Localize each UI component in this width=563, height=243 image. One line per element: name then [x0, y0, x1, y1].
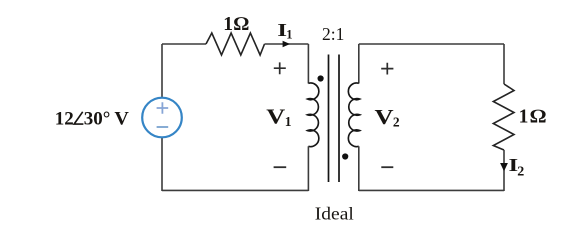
label V2	[375, 106, 394, 129]
voltage source VS circle	[142, 98, 182, 138]
label plus V1	[274, 62, 286, 74]
svg-text:2: 2	[393, 114, 400, 129]
wire left top lead	[161, 44, 163, 97]
svg-text:Ω: Ω	[530, 107, 546, 128]
wire right top lead	[503, 44, 505, 84]
current arrow I1 head	[283, 41, 290, 47]
transformer primary coil L1	[308, 83, 319, 147]
resistor R top 1ohm zigzag	[206, 33, 265, 55]
svg-text:V: V	[114, 108, 129, 129]
svg-text:2: 2	[517, 164, 524, 179]
svg-text:1: 1	[519, 107, 529, 128]
transformer core line 1	[328, 55, 330, 183]
wire secondary bottom lead	[358, 146, 360, 191]
label I2	[509, 155, 519, 175]
svg-text:1: 1	[223, 14, 233, 35]
wire secondary top lead	[358, 44, 360, 84]
wire resistor to transformer top	[265, 43, 309, 45]
label V1	[266, 106, 285, 129]
transformer core line 2	[338, 55, 340, 183]
wire bottom right	[359, 189, 504, 191]
wire bottom left	[162, 189, 308, 191]
wire left bottom lead	[161, 138, 163, 191]
label I1	[277, 20, 287, 41]
label minus V2	[381, 166, 393, 168]
polarity dot secondary	[342, 153, 348, 159]
wire top right	[359, 43, 504, 45]
wire top-left segment	[162, 43, 206, 45]
current arrow I2 head	[500, 163, 508, 171]
wire primary bottom lead	[307, 146, 309, 191]
svg-text:1: 1	[285, 114, 292, 129]
svg-text:Ideal: Ideal	[315, 204, 354, 224]
source plus sign	[157, 102, 169, 114]
label minus V1	[274, 166, 287, 168]
resistor R load 1ohm zigzag vertical	[493, 84, 514, 150]
svg-text:2:1: 2:1	[322, 24, 344, 44]
svg-text:V: V	[266, 106, 285, 129]
label source value 12 angle 30 V	[55, 108, 129, 129]
transformer secondary coil L2	[348, 83, 359, 147]
wire right bottom lead	[503, 150, 505, 191]
svg-text:Ω: Ω	[234, 14, 250, 35]
svg-text:30°: 30°	[84, 108, 111, 129]
polarity dot primary	[318, 75, 324, 81]
svg-text:12: 12	[55, 108, 74, 129]
svg-text:V: V	[375, 106, 394, 129]
svg-text:1: 1	[286, 28, 292, 42]
label plus V2	[381, 63, 393, 75]
source minus sign	[157, 126, 169, 128]
wire primary top lead	[307, 44, 309, 84]
